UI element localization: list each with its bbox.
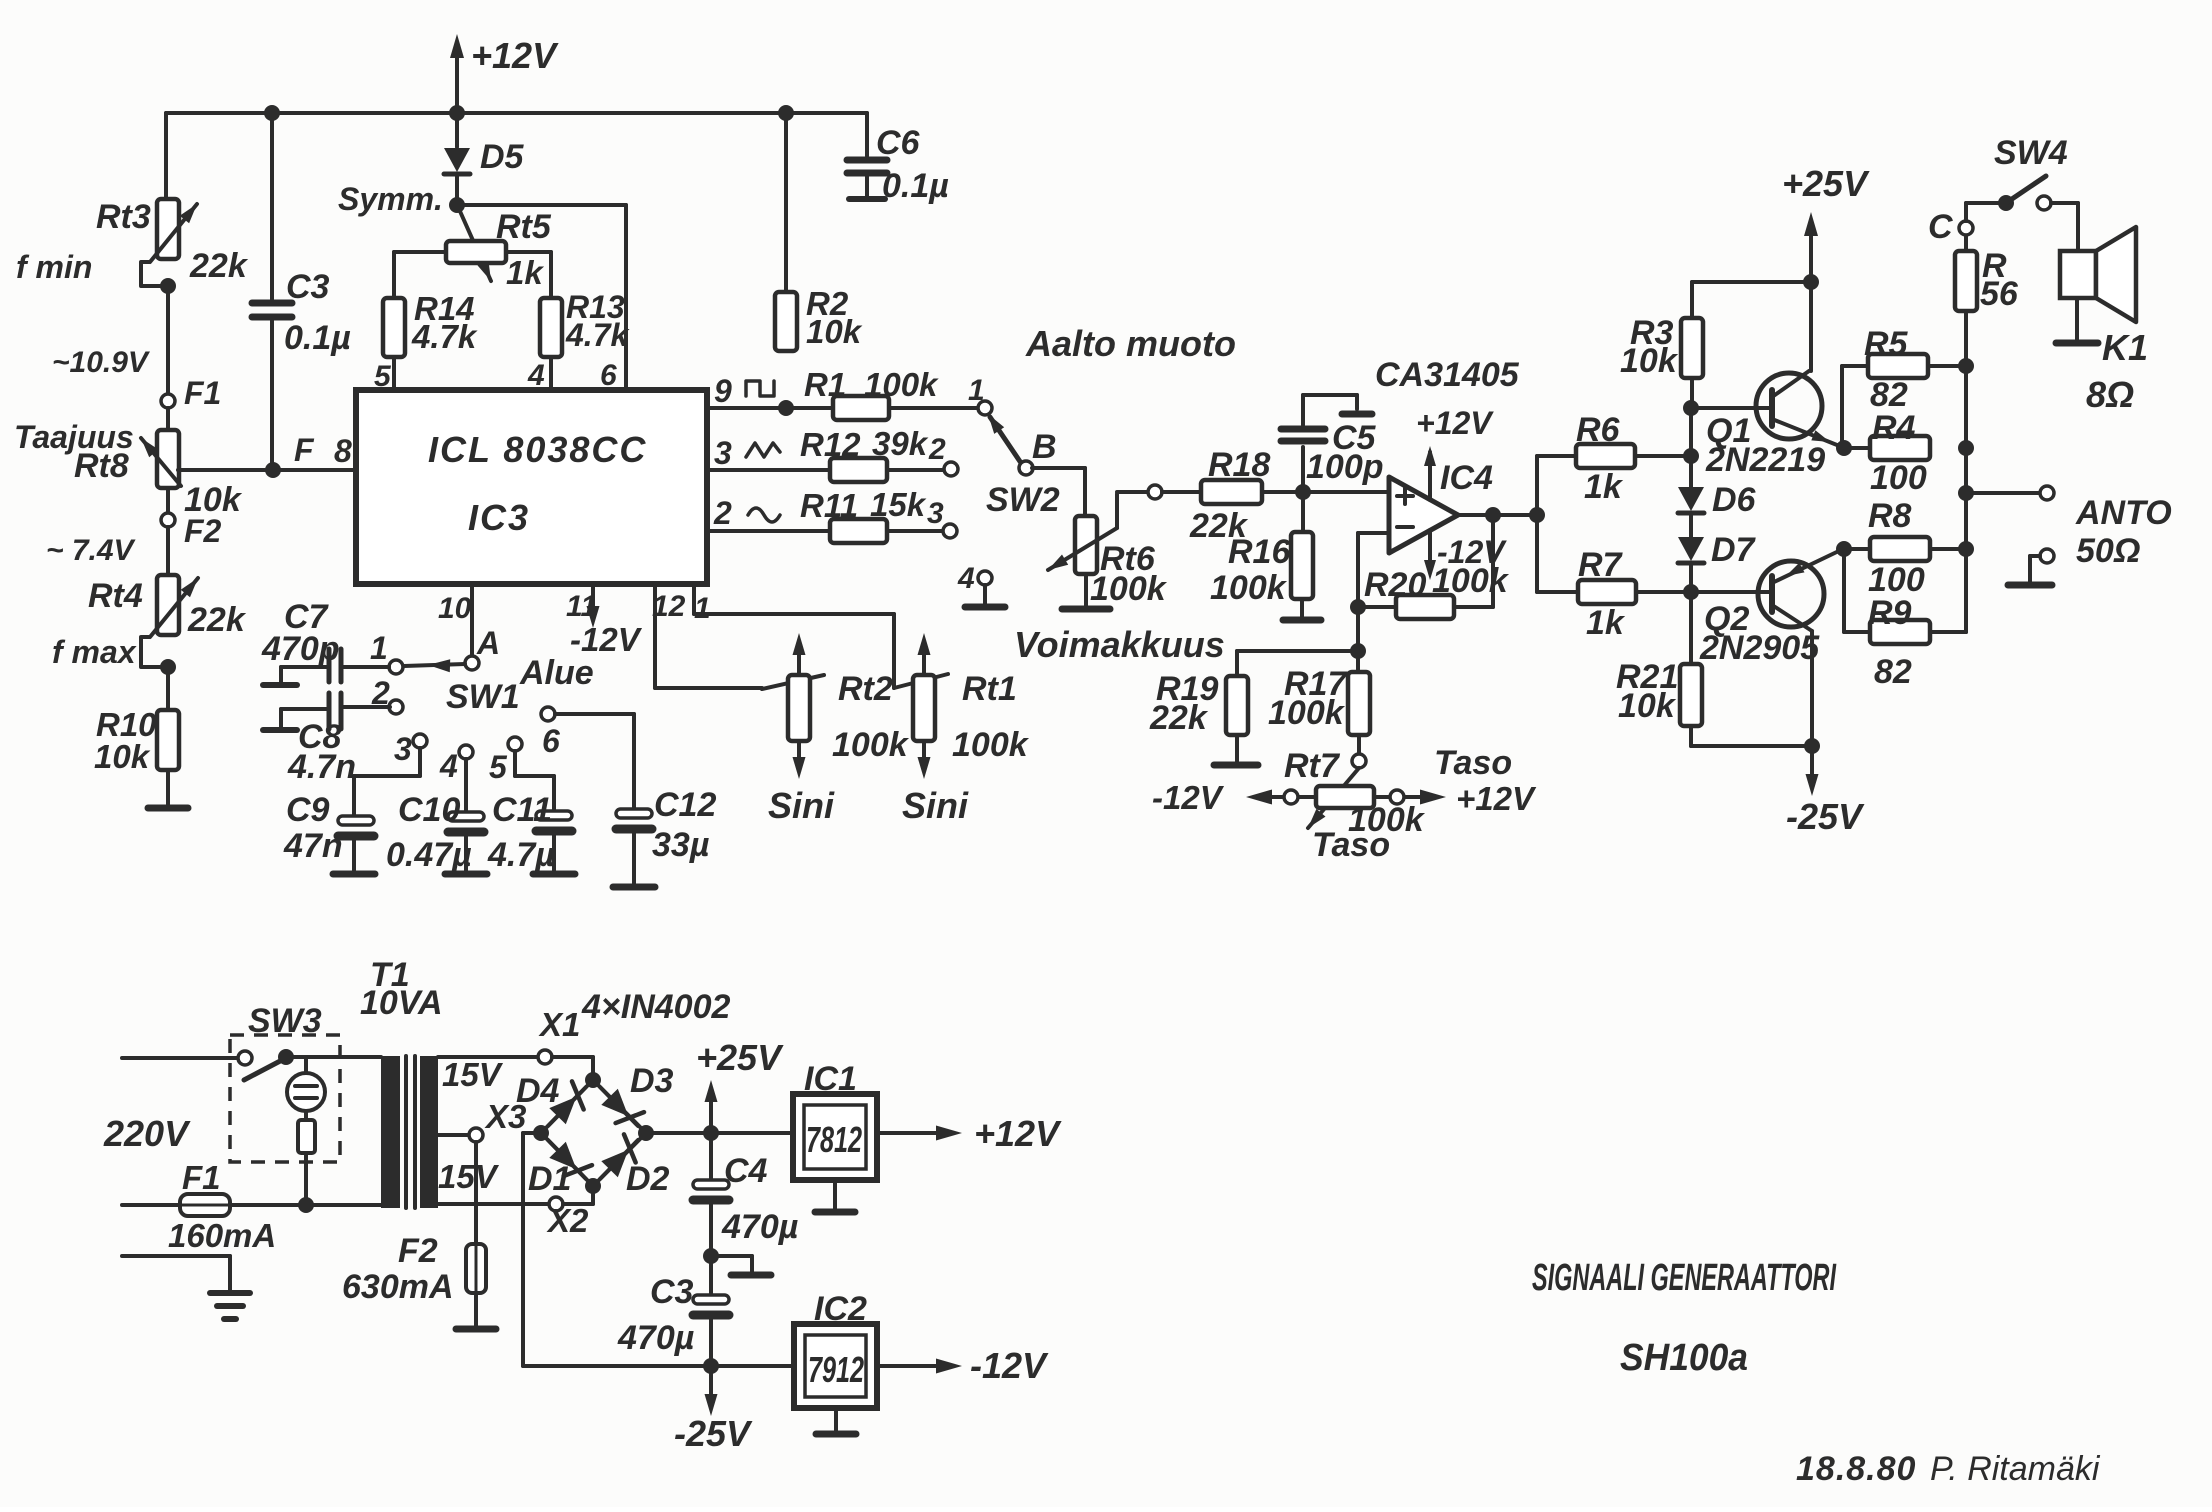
svg-text:15k: 15k [870, 486, 927, 523]
svg-text:100k: 100k [1210, 569, 1288, 607]
node R8 right [1958, 541, 1974, 557]
svg-text:220V: 220V [103, 1113, 191, 1154]
svg-text:Rt5: Rt5 [496, 208, 552, 246]
svg-text:100: 100 [1870, 459, 1927, 497]
label 15V lower [438, 1158, 500, 1195]
svg-text:F1: F1 [182, 1159, 221, 1196]
node Rt3 bottom [160, 278, 176, 294]
svg-text:18.8.80: 18.8.80 [1796, 1450, 1916, 1488]
potentiometer Rt4 22k [52, 527, 247, 670]
diode D6 [1678, 456, 1757, 519]
wire top +12V bus [166, 111, 867, 115]
svg-text:+12V: +12V [1456, 780, 1537, 817]
svg-text:10k: 10k [1618, 687, 1677, 725]
capacitor C3 0.1u [252, 113, 351, 470]
diode bridge D1 [528, 1133, 593, 1198]
node R18 C5 [1295, 484, 1311, 500]
svg-text:4.7k: 4.7k [411, 318, 478, 355]
svg-text:100k: 100k [1268, 694, 1346, 732]
diode bridge D2 [593, 1133, 670, 1198]
svg-text:0.1µ: 0.1µ [284, 319, 351, 357]
svg-text:-25V: -25V [1786, 796, 1865, 837]
resistor R9 82 parallel loop [1844, 549, 1966, 691]
svg-text:1: 1 [370, 630, 388, 666]
wire bus to Rt3 [164, 113, 168, 199]
svg-text:100p: 100p [1306, 448, 1384, 486]
node open R18 input [1148, 485, 1162, 499]
label 4x1N4002 [581, 988, 730, 1026]
signature date [1796, 1450, 2101, 1488]
wire pin9 [707, 406, 833, 410]
op-amp U IC3 ICL8038CC box [356, 390, 707, 584]
svg-text:1k: 1k [1584, 468, 1624, 506]
SW1 contact 2 [371, 675, 403, 714]
IC4 -12V supply arrow [1424, 530, 1507, 580]
op-amp U IC4 CA3140 [1375, 356, 1520, 553]
svg-text:ICL 8038CC: ICL 8038CC [428, 429, 647, 470]
svg-text:Aalto muoto: Aalto muoto [1025, 323, 1236, 364]
svg-text:0.47µ: 0.47µ [386, 836, 472, 874]
capacitor C9 47n [283, 748, 420, 874]
svg-text:470µ: 470µ [617, 1319, 694, 1357]
switch SW2 blade [986, 414, 1060, 519]
svg-text:12: 12 [652, 590, 686, 623]
svg-text:7812: 7812 [806, 1119, 862, 1160]
svg-text:C6: C6 [876, 124, 921, 162]
svg-text:A: A [476, 625, 500, 661]
wire feedback down [1454, 515, 1493, 607]
wire to R19 [1237, 651, 1358, 676]
node R5 right [1958, 358, 1974, 374]
svg-text:2: 2 [928, 433, 946, 466]
svg-text:SH100a: SH100a [1620, 1337, 1748, 1379]
capacitor C12 33u [555, 714, 716, 887]
svg-text:4: 4 [439, 748, 458, 784]
svg-text:Rt7: Rt7 [1284, 747, 1341, 785]
node bus-R2 [778, 105, 794, 121]
pin 2 sine glyph [713, 495, 780, 531]
wire R12 to SW2-2 [887, 468, 944, 472]
svg-text:SW2: SW2 [986, 481, 1060, 519]
node SW2 pole B [1019, 461, 1033, 475]
resistor R20 100k [1364, 562, 1510, 619]
wire R11 to SW2-3 [887, 529, 943, 533]
potentiometer Rt8 10k Taajuus [14, 408, 243, 519]
svg-text:D4: D4 [516, 1072, 560, 1110]
SW1 contact 4 [439, 745, 473, 784]
regulator IC1 7812 [793, 1060, 877, 1180]
switch SW4 [1966, 134, 2068, 221]
svg-text:F1: F1 [184, 375, 221, 411]
node F wire C3 [265, 462, 281, 478]
wire R1 to SW2-1 [889, 406, 978, 410]
svg-text:Rt3: Rt3 [96, 198, 151, 236]
svg-text:+25V: +25V [1782, 163, 1870, 204]
label Voimakkuus [1014, 624, 1225, 665]
node neon neutral [298, 1197, 314, 1213]
svg-text:R6: R6 [1576, 411, 1621, 449]
wire IC2 out -12V [877, 1345, 1049, 1386]
svg-text:0.1µ: 0.1µ [882, 167, 949, 205]
wire D7 to Q2 base [1689, 563, 1693, 592]
ground C4 L [711, 1256, 771, 1275]
node SW2 contact 1 [968, 374, 992, 415]
node Symm [338, 181, 465, 217]
svg-text:39k: 39k [872, 425, 929, 462]
node R2 pin9 [778, 400, 794, 416]
svg-text:100k: 100k [832, 726, 910, 764]
pin 9 square-wave glyph [714, 373, 774, 409]
svg-text:+12V: +12V [471, 35, 559, 76]
ground R19 [1214, 735, 1258, 765]
pin 1 wire [694, 584, 894, 688]
potentiometer Rt5 1k [446, 208, 552, 291]
svg-text:K1: K1 [2102, 327, 2148, 368]
svg-text:F2: F2 [184, 513, 222, 549]
svg-text:-12V: -12V [970, 1345, 1049, 1386]
wire pin3 [707, 468, 830, 472]
svg-text:B: B [1032, 428, 1057, 466]
svg-text:56: 56 [1980, 275, 2019, 313]
capacitor C7 470p [261, 598, 389, 685]
node bus-C3 [264, 105, 280, 121]
svg-text:22k: 22k [189, 247, 249, 285]
SW1 contact 6 [541, 707, 560, 759]
resistor R6 1k [1576, 411, 1635, 506]
node bridge right [638, 1125, 654, 1141]
pin 12 wire [652, 584, 762, 688]
capacitor C8 4.7n [263, 693, 390, 786]
wire SW4 to speaker [2051, 203, 2078, 251]
svg-text:P. Ritamäki: P. Ritamäki [1930, 1450, 2101, 1488]
svg-text:IC4: IC4 [1440, 459, 1493, 497]
svg-text:Sini: Sini [768, 785, 835, 826]
svg-text:Rt2: Rt2 [838, 670, 893, 708]
svg-text:Alue: Alue [519, 654, 594, 692]
svg-text:C12: C12 [654, 786, 716, 824]
svg-text:50Ω: 50Ω [2076, 532, 2140, 570]
svg-text:10k: 10k [94, 738, 151, 775]
svg-text:9: 9 [714, 373, 732, 409]
svg-text:3: 3 [714, 435, 732, 471]
node SW1 pole A [446, 625, 594, 716]
ground IC1 [815, 1180, 855, 1212]
wire Rt5 left to R14 [394, 252, 446, 298]
node X1 [538, 1006, 580, 1064]
resistor R8 100 [1844, 497, 1966, 599]
svg-text:22k: 22k [1149, 699, 1209, 737]
svg-text:100k: 100k [1090, 570, 1168, 608]
svg-text:R12: R12 [800, 426, 861, 463]
wire R21 to -25V rail [1691, 726, 1812, 746]
svg-text:10: 10 [438, 592, 472, 625]
svg-text:C9: C9 [286, 791, 330, 829]
svg-text:R5: R5 [1864, 325, 1909, 363]
node SW2 contact 3 [927, 497, 957, 538]
svg-text:IC2: IC2 [814, 1290, 867, 1328]
ground earth symbol [210, 1293, 250, 1319]
wire bridge - rail [523, 1133, 794, 1366]
svg-text:SIGNAALI GENERAATTORI: SIGNAALI GENERAATTORI [1532, 1257, 1837, 1299]
pin 11 wire -12V [566, 584, 643, 658]
node X2 [546, 1197, 589, 1239]
svg-text:4.7k: 4.7k [565, 317, 630, 353]
SW1 contact 5 [489, 737, 522, 785]
svg-text:100k: 100k [864, 366, 939, 403]
svg-text:11: 11 [566, 590, 597, 623]
svg-text:D6: D6 [1712, 481, 1757, 519]
svg-text:8: 8 [334, 433, 352, 469]
capacitor C11 4.7u [487, 751, 575, 874]
svg-text:+25V: +25V [696, 1037, 784, 1078]
Rt7 right terminal to +12V [1374, 780, 1537, 817]
ground F2 [456, 1293, 496, 1329]
svg-text:1: 1 [694, 592, 711, 625]
wire pin2 [707, 529, 830, 533]
Rt7 left terminal to -12V [1152, 779, 1316, 816]
svg-text:R18: R18 [1208, 446, 1270, 484]
diode D4 symbol [548, 1081, 586, 1126]
node ANTO terminal + [2040, 486, 2172, 570]
svg-text:X2: X2 [546, 1202, 589, 1239]
svg-text:4×IN4002: 4×IN4002 [581, 988, 730, 1026]
svg-text:Sini: Sini [902, 785, 969, 826]
svg-text:X1: X1 [538, 1006, 580, 1043]
svg-text:Voimakkuus: Voimakkuus [1014, 624, 1225, 665]
svg-text:2N2905: 2N2905 [1699, 629, 1820, 667]
svg-text:Taso: Taso [1312, 826, 1390, 864]
diode D7 [1678, 513, 1757, 569]
svg-text:Symm.: Symm. [338, 181, 443, 217]
svg-text:R8: R8 [1868, 497, 1912, 535]
wire Rt5 right to R13 [506, 252, 551, 298]
resistor R14 4.7k [383, 290, 478, 357]
resistor R17 100k [1268, 651, 1370, 735]
node R17 top [1350, 643, 1366, 659]
SW1 contact 1 [370, 630, 403, 674]
fuse F2 630mA [342, 1142, 486, 1306]
transistor Q2 2N2905 [1691, 549, 1843, 667]
svg-text:470p: 470p [261, 630, 340, 668]
wire Rt3 to F1 [52, 286, 168, 394]
svg-text:R16: R16 [1228, 533, 1291, 571]
resistor R2 10k [775, 113, 863, 351]
pin 8 wire F input [178, 432, 356, 470]
svg-text:R7: R7 [1578, 546, 1624, 584]
svg-text:10VA: 10VA [360, 984, 443, 1022]
svg-text:6: 6 [542, 723, 560, 759]
node R20 junction [1350, 599, 1366, 615]
ground Rt6 [1062, 574, 1110, 609]
potentiometer Rt2 100k [762, 633, 910, 779]
fuse F1 160mA [122, 1159, 276, 1254]
node IC4 out fb [1485, 507, 1501, 523]
wire X1 to bridge [552, 1057, 593, 1074]
capacitor C3b 470u [617, 1256, 729, 1366]
svg-text:3: 3 [394, 731, 412, 767]
svg-text:f min: f min [16, 249, 92, 285]
ground IC2 [816, 1408, 856, 1434]
potentiometer Rt1 100k [894, 633, 1030, 779]
node base R6 D6 [1683, 448, 1699, 464]
pin 10 wire [438, 584, 472, 655]
svg-text:630mA: 630mA [342, 1268, 454, 1306]
wire IC1 out +12V [877, 1113, 1062, 1154]
diode D2 symbol [600, 1134, 638, 1179]
svg-text:D1: D1 [528, 1160, 571, 1198]
node bridge left [533, 1125, 549, 1141]
label Sini right [902, 785, 969, 826]
capacitor C6 0.1u [847, 113, 949, 205]
svg-text:D2: D2 [626, 1160, 670, 1198]
wire secondary top to X1 [438, 1055, 538, 1059]
svg-text:+12V: +12V [974, 1113, 1062, 1154]
wire Rt6 wiper to R18 [1117, 490, 1148, 494]
svg-text:CA31405: CA31405 [1375, 356, 1520, 394]
svg-text:470µ: 470µ [721, 1208, 798, 1246]
svg-text:R11: R11 [800, 487, 858, 524]
node -25V power [703, 1358, 719, 1374]
svg-text:F2: F2 [398, 1232, 438, 1270]
wire R17 to Rt7 wiper [1357, 735, 1361, 754]
svg-text:D5: D5 [480, 138, 525, 176]
resistor R1 100k [804, 366, 939, 420]
capacitor C5 100p [1281, 395, 1384, 492]
svg-text:SW4: SW4 [1994, 134, 2068, 172]
svg-text:f max: f max [52, 634, 137, 670]
svg-text:2N2219: 2N2219 [1705, 441, 1825, 479]
svg-text:R1: R1 [804, 366, 846, 403]
svg-text:C3: C3 [650, 1273, 694, 1311]
diode bridge D3 [593, 1062, 674, 1133]
wire mains neutral [230, 1203, 381, 1207]
wire R14 to pin5 [374, 357, 394, 393]
svg-text:2: 2 [713, 495, 732, 531]
svg-text:22k: 22k [187, 601, 247, 639]
resistor R13 4.7k [540, 289, 630, 357]
wire R20 to inverting input [1358, 533, 1396, 607]
svg-text:1: 1 [968, 374, 985, 407]
svg-text:4.7n: 4.7n [287, 748, 356, 786]
svg-text:IC3: IC3 [468, 497, 530, 538]
node F1 [161, 375, 221, 411]
resistor R18 22k [1162, 446, 1270, 545]
svg-text:-12V: -12V [570, 621, 643, 658]
svg-text:ANTO: ANTO [2075, 494, 2172, 532]
wire down to R17 node [1356, 607, 1360, 651]
SW1 contact 3 [394, 731, 427, 767]
node X3 [469, 1098, 526, 1142]
resistor R10 10k [94, 667, 179, 775]
svg-text:Taso: Taso [1434, 744, 1512, 782]
svg-text:5: 5 [489, 749, 508, 785]
title SIGNAALI GENERAATTORI [1532, 1257, 1837, 1299]
resistor R11 15k [800, 486, 927, 543]
node bus-D5 [449, 105, 465, 121]
diode D1 symbol [548, 1140, 592, 1179]
+25V arrow power [696, 1037, 784, 1133]
node ANTO terminal - with ground [2008, 549, 2054, 585]
wire R3 to base node [1690, 378, 1694, 408]
node Q2 base [1683, 584, 1699, 600]
svg-text:+12V: +12V [1416, 405, 1494, 441]
-25V arrow power [674, 1366, 753, 1454]
resistor R21 10k [1616, 592, 1702, 726]
regulator IC2 7912 [794, 1290, 877, 1408]
node C terminal [1928, 208, 1973, 251]
svg-text:C10: C10 [398, 791, 460, 829]
capacitor C10 0.47u [386, 759, 487, 874]
wire Q2 collector down [1810, 631, 1814, 746]
node bridge top [585, 1072, 601, 1088]
svg-text:160mA: 160mA [168, 1217, 276, 1254]
wire symm to pin6 [457, 205, 626, 390]
wire IC4 output [1458, 513, 1537, 517]
resistor R19 22k [1149, 670, 1248, 737]
ground R10 [148, 770, 188, 808]
node C4 ground [703, 1248, 719, 1264]
node F2 [46, 488, 222, 567]
wire secondary tap to X3 [438, 1133, 469, 1137]
svg-text:8Ω: 8Ω [2086, 374, 2134, 415]
svg-text:1k: 1k [1586, 604, 1626, 642]
svg-text:C: C [1928, 208, 1953, 246]
diode D5 [444, 113, 525, 205]
node Q2 emitter [1836, 541, 1852, 557]
svg-text:C11: C11 [492, 791, 552, 829]
svg-text:-25V: -25V [674, 1413, 753, 1454]
svg-text:Rt4: Rt4 [88, 577, 143, 615]
svg-text:D7: D7 [1711, 531, 1757, 569]
node ANTO tap [1958, 485, 1974, 501]
svg-text:Rt8: Rt8 [74, 447, 129, 485]
wire R18 to opamp [1262, 490, 1389, 494]
resistor R16 100k [1210, 492, 1313, 607]
svg-text:~10.9V: ~10.9V [52, 346, 151, 379]
svg-text:R4: R4 [1872, 409, 1916, 447]
node +25V R3 branch [1803, 274, 1819, 290]
svg-text:15V: 15V [438, 1158, 500, 1195]
resistor R4 100 [1844, 409, 1930, 497]
svg-text:82: 82 [1870, 376, 1908, 414]
IC4 +12V supply arrow [1416, 405, 1494, 500]
wire mains live [122, 1056, 238, 1060]
resistor R5 82 parallel loop [1842, 325, 1966, 448]
svg-text:3: 3 [927, 497, 944, 530]
potentiometer Rt3 22k [16, 198, 249, 286]
switch SW3 [230, 1002, 381, 1162]
diode bridge D4 [516, 1072, 593, 1133]
transistor Q1 2N2219 [1691, 371, 1842, 479]
potentiometer Rt7 100k Taso [1284, 744, 1512, 864]
svg-text:10k: 10k [806, 313, 863, 350]
node R4 right [1958, 440, 1974, 456]
node Q1 emitter [1836, 440, 1852, 456]
svg-text:7912: 7912 [808, 1349, 864, 1390]
label 220V [103, 1113, 191, 1154]
potentiometer Rt6 100k Voimakkuus [1048, 494, 1168, 608]
resistor R12 39k [800, 425, 929, 482]
svg-text:SW3: SW3 [248, 1002, 322, 1040]
label Aalto muoto [1025, 323, 1236, 364]
wire ANTO tap [1966, 491, 2040, 495]
title SH100a [1620, 1337, 1748, 1379]
svg-text:82: 82 [1874, 653, 1912, 691]
svg-text:C4: C4 [724, 1152, 768, 1190]
capacitor C4 470u [693, 1133, 798, 1256]
wire secondary bottom to X2 [438, 1202, 549, 1206]
diode D3 symbol [600, 1087, 644, 1126]
